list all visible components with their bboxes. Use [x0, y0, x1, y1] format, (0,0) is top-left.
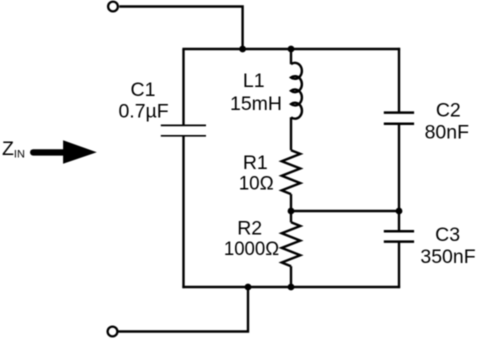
svg-text:0.7µF: 0.7µF	[118, 101, 168, 123]
junction bottom feed node	[245, 284, 252, 291]
wire top rail	[182, 48, 400, 50]
svg-text:C2: C2	[436, 100, 461, 122]
wire right branch lower	[398, 242, 400, 288]
svg-text:R2: R2	[237, 218, 262, 240]
svg-text:C1: C1	[131, 79, 156, 101]
svg-text:C3: C3	[435, 224, 460, 246]
svg-text:1000Ω: 1000Ω	[224, 238, 279, 260]
wire right branch middle	[398, 124, 400, 231]
capacitor C1	[161, 125, 206, 135]
wire top terminal lead	[119, 7, 242, 48]
svg-text:10Ω: 10Ω	[239, 173, 274, 195]
junction top feed node	[239, 46, 246, 53]
wire left branch lower	[182, 136, 184, 288]
svg-text:350nF: 350nF	[420, 246, 475, 268]
capacitor C2	[384, 113, 414, 124]
resistor R2	[282, 222, 301, 266]
wire R1 to node	[290, 194, 292, 211]
wire R2 to bottom rail	[290, 266, 292, 287]
terminal bottom-left	[108, 327, 118, 337]
inductor L1	[291, 63, 302, 119]
junction R1-R2 node	[288, 208, 295, 215]
svg-text:15mH: 15mH	[230, 93, 282, 115]
svg-text:80nF: 80nF	[425, 122, 470, 144]
svg-text:L1: L1	[243, 70, 265, 92]
junction L1 top node	[288, 46, 295, 53]
resistor R1	[282, 150, 301, 194]
wire right branch upper	[398, 48, 400, 112]
wire bottom rail	[182, 286, 400, 288]
junction middle rail right node	[396, 208, 403, 215]
wire node to R2	[290, 211, 292, 222]
capacitor C3	[384, 231, 414, 241]
wire left branch upper	[182, 49, 184, 125]
ZIN arrow	[33, 149, 64, 155]
svg-text:R1: R1	[243, 152, 268, 174]
terminal top-left	[108, 2, 118, 12]
junction R2 bottom node	[288, 284, 295, 291]
wire middle rail	[291, 210, 400, 212]
wire bottom terminal lead	[118, 287, 248, 332]
wire top rail to L1	[290, 49, 292, 64]
wire L1 to R1	[290, 117, 292, 150]
